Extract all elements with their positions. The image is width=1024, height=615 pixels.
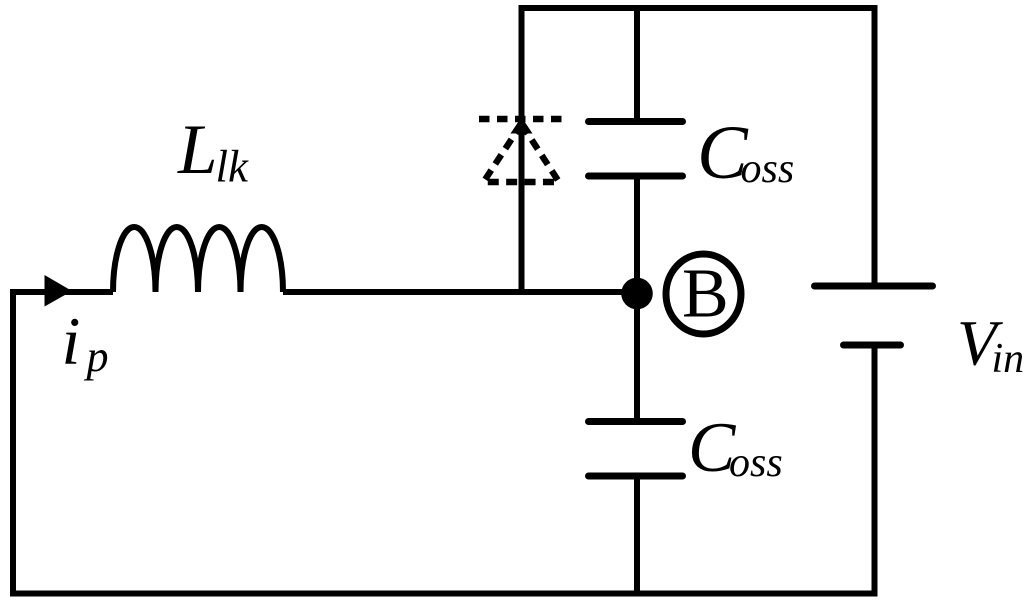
svg-text:p: p — [84, 332, 109, 381]
svg-text:oss: oss — [741, 146, 795, 192]
svg-text:L: L — [177, 111, 218, 189]
svg-text:i: i — [62, 303, 81, 379]
svg-text:oss: oss — [729, 440, 783, 486]
svg-text:in: in — [992, 336, 1024, 382]
svg-text:B: B — [682, 256, 729, 333]
svg-text:lk: lk — [216, 142, 250, 192]
